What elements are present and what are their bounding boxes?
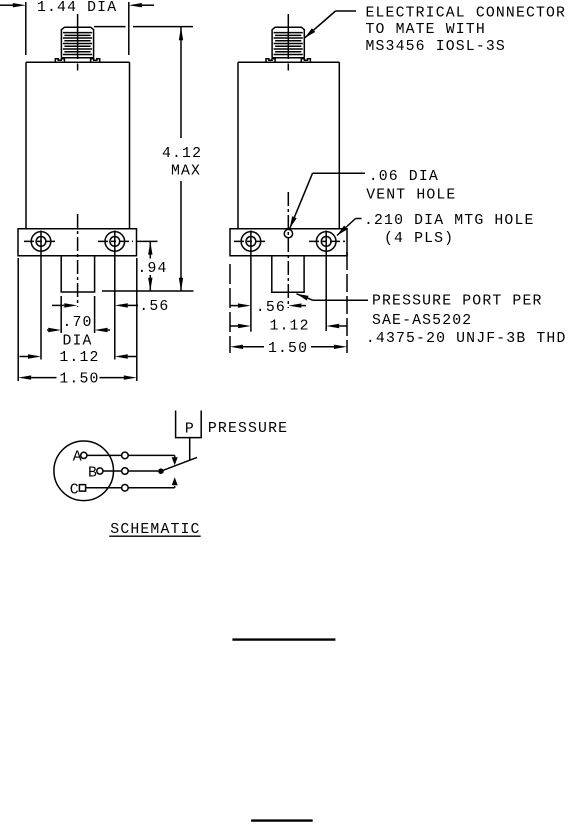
svg-text:4.12: 4.12 [162, 146, 202, 162]
svg-text:PRESSURE PORT PER: PRESSURE PORT PER [372, 294, 543, 310]
svg-text:PRESSURE: PRESSURE [208, 421, 288, 437]
svg-text:.94: .94 [138, 261, 168, 277]
svg-text:P: P [185, 421, 195, 437]
svg-text:VENT HOLE: VENT HOLE [366, 188, 456, 204]
svg-text:DIA: DIA [63, 334, 93, 350]
svg-text:1.50: 1.50 [59, 372, 99, 388]
svg-text:1.50: 1.50 [268, 341, 308, 357]
svg-text:MS3456 IOSL-3S: MS3456 IOSL-3S [366, 39, 506, 55]
svg-text:.56: .56 [256, 300, 286, 316]
svg-text:.06 DIA: .06 DIA [369, 169, 439, 185]
svg-text:SAE-AS5202: SAE-AS5202 [372, 313, 472, 329]
svg-text:B: B [88, 465, 98, 481]
svg-text:TO MATE WITH: TO MATE WITH [366, 22, 486, 38]
svg-text:MAX: MAX [171, 164, 201, 180]
svg-text:1.44 DIA: 1.44 DIA [37, 0, 117, 16]
svg-text:A: A [73, 449, 83, 465]
svg-text:.4375-20 UNJF-3B THD: .4375-20 UNJF-3B THD [366, 331, 567, 347]
svg-text:ELECTRICAL CONNECTOR: ELECTRICAL CONNECTOR [366, 5, 567, 21]
svg-text:.70: .70 [63, 315, 93, 331]
svg-text:1.12: 1.12 [59, 350, 99, 366]
svg-text:.56: .56 [139, 299, 169, 315]
svg-text:.210 DIA MTG HOLE: .210 DIA MTG HOLE [364, 213, 535, 229]
svg-text:1.12: 1.12 [270, 319, 310, 335]
svg-text:C: C [70, 483, 80, 499]
svg-text:(4 PLS): (4 PLS) [384, 231, 454, 247]
